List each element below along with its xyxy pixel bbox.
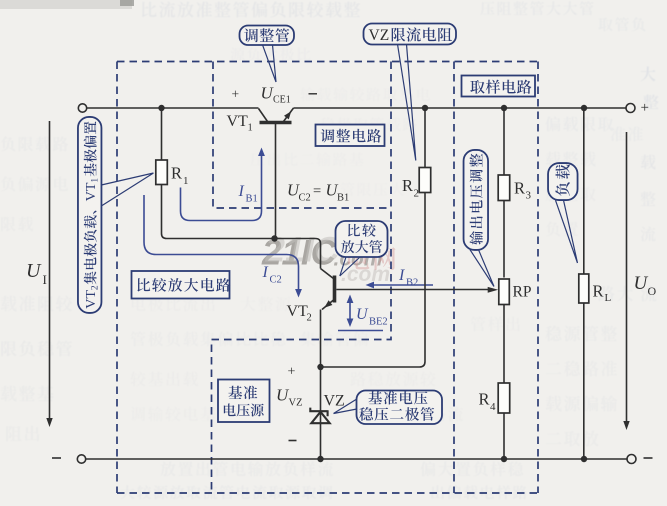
- svg-text:B1: B1: [246, 194, 258, 205]
- node R3 top junction: [501, 105, 507, 111]
- wire R1 top lead: [161, 108, 163, 160]
- svg-text:C2: C2: [270, 275, 282, 286]
- wire R4 bottom lead: [503, 413, 505, 459]
- svg-text:R: R: [479, 390, 490, 409]
- wire VT2 emitter down to VZ: [320, 310, 322, 460]
- label - of U_VZ: [289, 440, 297, 442]
- callout 输出电压调整 (output voltage adjust): [464, 150, 489, 250]
- arrow U_O output voltage: [626, 132, 628, 422]
- svg-text:2: 2: [414, 188, 420, 200]
- svg-text:RP: RP: [513, 284, 532, 301]
- svg-text:I: I: [398, 267, 405, 284]
- resistor R4: [498, 383, 510, 413]
- wire R3 top lead: [503, 108, 505, 175]
- svg-text:VZ: VZ: [324, 393, 345, 410]
- svg-text:1: 1: [248, 123, 253, 134]
- wire R2 bottom to node B: [323, 193, 425, 368]
- svg-text:3: 3: [526, 190, 532, 202]
- callout VT2 collector load / VT1 base bias (vertical): [78, 117, 102, 313]
- svg-text:R: R: [514, 179, 525, 198]
- wire RL top lead: [583, 108, 585, 274]
- wire R1 bottom to node A: [162, 185, 273, 239]
- svg-text:O: O: [648, 284, 657, 298]
- svg-text:.com: .com: [341, 263, 390, 286]
- svg-text:CE1: CE1: [273, 95, 291, 106]
- label box: sampling circuit 取样电路: [462, 76, 536, 97]
- wire top rail right segment: [294, 107, 627, 109]
- wire RL bottom lead: [583, 303, 585, 459]
- annotation double arrow U_BE2: [349, 299, 351, 323]
- svg-text:=: =: [313, 184, 321, 200]
- terminal output top: [626, 104, 635, 113]
- label box: comparison amplifier circuit 比较放大电路: [132, 271, 230, 299]
- svg-text:2: 2: [307, 313, 312, 324]
- transistor VT2 emitter lead: [322, 300, 334, 310]
- node RL bottom junction: [581, 456, 587, 462]
- annotation arrow I_C2: [144, 195, 299, 291]
- svg-text:VT: VT: [287, 303, 309, 320]
- wire VT2 base to RP wiper: [336, 289, 489, 291]
- node B (VZ top / R2): [317, 364, 323, 370]
- node R1 top junction: [158, 105, 164, 111]
- svg-text:L: L: [605, 292, 612, 304]
- svg-text:B2: B2: [406, 278, 418, 289]
- transistor VT1 collector lead: [259, 109, 268, 122]
- wire RP to R4: [503, 305, 505, 384]
- svg-text:VZ: VZ: [369, 27, 390, 44]
- svg-text:I: I: [43, 272, 47, 287]
- arrow U_I input voltage: [49, 121, 51, 419]
- svg-text:I: I: [238, 183, 245, 200]
- svg-text:R: R: [593, 282, 604, 301]
- callout 调整管 (adjust tube): [240, 26, 295, 46]
- label box: reference voltage source 基准电压源: [218, 380, 270, 423]
- dashed box: sampling region left edge: [453, 62, 455, 494]
- svg-text:BE2: BE2: [369, 317, 388, 328]
- label - of U_CE1: [309, 93, 318, 95]
- wire top rail left segment: [87, 107, 259, 109]
- svg-text:U: U: [356, 306, 369, 323]
- node A (VT1 base / R1 / VT2 collector): [271, 235, 277, 241]
- svg-text:+: +: [232, 87, 240, 102]
- svg-text:+: +: [288, 365, 296, 380]
- dashed box: sampling region right edge: [537, 62, 539, 494]
- wire node A to VT2 collector: [275, 239, 334, 279]
- svg-text:VT: VT: [227, 113, 249, 130]
- terminal output bottom: [627, 455, 636, 464]
- resistor R2: [419, 168, 431, 193]
- dashed box: adjust-circuit region: [212, 62, 392, 494]
- svg-text:1: 1: [183, 175, 189, 187]
- node R2 top junction: [422, 105, 428, 111]
- transistor VT1 base bar: [260, 121, 292, 125]
- wire VT1 base lead: [275, 124, 277, 237]
- decorative scan edge: [0, 0, 132, 9]
- callout VZ限流电阻 (VZ current-limit resistor): [364, 24, 457, 45]
- node R4 bottom junction: [501, 456, 507, 462]
- zener diode VZ: [311, 412, 329, 423]
- callout 负载 (load): [548, 163, 578, 200]
- terminal input bottom: [77, 455, 85, 463]
- annotation arrow I_B1: [181, 153, 262, 221]
- svg-text:U: U: [634, 273, 649, 294]
- svg-text:R: R: [402, 176, 413, 195]
- svg-text:4: 4: [490, 401, 496, 413]
- callout 比较放大管 (comparison amplifier tube): [336, 221, 388, 257]
- annotation arrow I_B2: [371, 284, 433, 286]
- svg-text:R: R: [171, 164, 182, 183]
- resistor RL (load): [579, 274, 589, 303]
- svg-text:I: I: [262, 264, 269, 281]
- callout 基准电压 稳压二极管 (reference zener): [357, 391, 443, 425]
- label box: adjust circuit 调整电路: [316, 125, 385, 147]
- label - output terminal: [644, 457, 653, 459]
- svg-text:U: U: [26, 260, 42, 282]
- dashed box: comparison-amplifier region outline (left/top/bottom/right): [117, 62, 538, 494]
- svg-text:+: +: [641, 100, 649, 116]
- svg-text:C2: C2: [299, 193, 311, 204]
- wire bottom rail: [86, 458, 627, 460]
- resistor R3: [498, 175, 510, 201]
- wire R3 to RP: [503, 201, 505, 278]
- transistor VT2 base bar: [333, 276, 337, 303]
- transistor VT1 emitter lead: [284, 108, 294, 122]
- resistor R1: [156, 160, 168, 185]
- node VZ bottom junction: [317, 456, 323, 462]
- watermark pink overlay: [348, 247, 396, 270]
- potentiometer RP: [499, 279, 510, 305]
- wire R2 top lead: [424, 108, 426, 168]
- label - input terminal: [52, 457, 61, 459]
- node RL top junction: [581, 105, 587, 111]
- svg-text:VZ: VZ: [289, 398, 303, 409]
- svg-text:B1: B1: [337, 193, 349, 204]
- terminal input top: [78, 104, 86, 112]
